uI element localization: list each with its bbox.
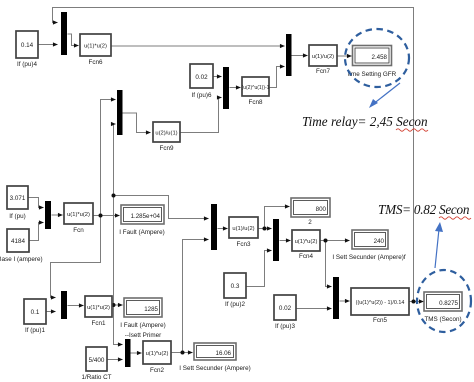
- mux M9: [125, 339, 131, 367]
- svg-text:16.06: 16.06: [216, 350, 232, 357]
- svg-text:I Sett Secunder (Ampere)f: I Sett Secunder (Ampere)f: [332, 254, 405, 261]
- function block Fcn9 u(2)/u(1): [153, 122, 180, 152]
- display I Fault (Ampere) --Isett Primer value 1285: [120, 298, 166, 339]
- function block Fcn6 u(1)*u(2): [80, 34, 111, 66]
- red squiggly underline under Secon: [396, 129, 428, 131]
- svg-text:Fcn: Fcn: [73, 227, 84, 234]
- mux M3: [117, 90, 123, 135]
- constant block 1/Ratio CT value 5/400: [81, 347, 111, 381]
- wire Fcn1 to display 1285: [113, 304, 123, 306]
- wire 1/Ratio CT to Mux9 bottom: [108, 359, 123, 361]
- svg-text:If (pu)4: If (pu)4: [17, 61, 37, 68]
- wire Fcn5 to display TMS: [410, 301, 424, 303]
- constant block If (pu)2 value 0.3: [224, 273, 246, 308]
- svg-text:TMS= 0.82 Secon: TMS= 0.82 Secon: [378, 202, 470, 217]
- function block Fcn3 u(1)/u(2): [229, 217, 258, 248]
- svg-text:Fcn5: Fcn5: [373, 317, 387, 324]
- display I Fault (Ampere) value 1.285e+04: [119, 205, 165, 236]
- svg-text:Fcn2: Fcn2: [150, 367, 164, 374]
- wire If(pu)1 to Mux2 bottom: [47, 311, 56, 313]
- junction node on Fcn3 output: [263, 227, 267, 231]
- wire Mux9 to Fcn2: [131, 352, 142, 354]
- svg-text:(u(2)^u(1))-1: (u(2)^u(1))-1: [242, 85, 270, 91]
- display I Sett Secunder (Ampere)f value 240: [332, 230, 405, 261]
- annotation blue arrow from TMS ellipse up to TMS text: [435, 222, 443, 268]
- constant block If (pu) value 3.071: [7, 186, 28, 220]
- svg-text:2: 2: [308, 219, 312, 226]
- wire If(pu)6 to Mux10 top: [214, 76, 222, 78]
- svg-text:Base I (ampere): Base I (ampere): [0, 256, 43, 263]
- mux M5: [211, 204, 217, 250]
- wire branch 16.06 net up to Mux5 bottom: [183, 240, 209, 353]
- junction node on Fcn2 output: [181, 351, 185, 355]
- wire feedback from Fcn5 output up and across top to Mux1: [53, 8, 414, 302]
- constant block If (pu)3 value 0.02: [274, 295, 296, 330]
- svg-text:Fcn8: Fcn8: [249, 99, 263, 106]
- svg-text:u(1)*u(2): u(1)*u(2): [295, 239, 318, 245]
- annotation dashed ellipse around TMS display: [417, 270, 471, 332]
- svg-text:If (pu)6: If (pu)6: [192, 92, 212, 99]
- svg-text:0.14: 0.14: [21, 42, 34, 49]
- svg-text:240: 240: [374, 238, 385, 245]
- svg-text:I Sett Secunder (Ampere): I Sett Secunder (Ampere): [179, 365, 250, 372]
- svg-text:1285: 1285: [144, 306, 158, 313]
- svg-text:1.285e+04: 1.285e+04: [131, 213, 161, 220]
- mux M7: [286, 34, 292, 76]
- mux M6: [273, 219, 279, 261]
- wire Fcn to display I Fault (Ampere): [94, 215, 120, 217]
- svg-text:Fcn1: Fcn1: [92, 320, 106, 327]
- wire Base I to Mux4 bottom: [30, 223, 44, 241]
- svg-text:u(1)*u(2): u(1)*u(2): [67, 212, 90, 218]
- function block Fcn7 u(1)/u(2): [309, 45, 337, 75]
- wire If(pu)3 to Mux8 bottom: [297, 308, 332, 310]
- wire branch Fcn3 up to display 800: [265, 207, 290, 229]
- svg-text:u(2)/u(1): u(2)/u(1): [155, 131, 177, 137]
- svg-text:u(1)/u(2): u(1)/u(2): [312, 54, 334, 60]
- display 2 value 800: [291, 198, 330, 226]
- wire Mux8 to Fcn5: [340, 300, 350, 302]
- mux M2: [61, 291, 67, 319]
- wire Fcn7 to display time Setting GFR: [338, 55, 352, 57]
- svg-text:0.02: 0.02: [279, 305, 292, 312]
- junction node on Fcn output: [99, 214, 103, 218]
- wire Fcn9 to Mux10 bottom: [181, 98, 222, 133]
- mux M8: [333, 277, 339, 319]
- mux M10: [223, 67, 229, 109]
- wire Mux1 to Fcn6: [68, 34, 79, 46]
- svg-text:5/400: 5/400: [89, 357, 105, 364]
- function block Fcn5 ((u(1)^u(2))-1)/0.14: [351, 288, 409, 324]
- wire Mux7 to Fcn7: [292, 55, 308, 57]
- wire Fcn4 to display 240: [321, 240, 350, 242]
- svg-text:Fcn9: Fcn9: [160, 145, 174, 152]
- wire branch 240 net down to Mux8 top: [326, 241, 332, 287]
- svg-text:I Fault (Ampere): I Fault (Ampere): [119, 229, 165, 236]
- annotation blue arrow from GFR ellipse to Time relay text: [369, 83, 400, 108]
- constant block If (pu)4 value 0.14: [16, 31, 38, 68]
- svg-text:0.02: 0.02: [195, 74, 208, 81]
- wire Fcn8 to Mux7 bottom: [270, 67, 285, 88]
- function block Fcn8 (u(2)^u(1))-1: [242, 77, 270, 106]
- wire Mux6 to Fcn4: [280, 240, 291, 242]
- wire Mux3 to Fcn9: [123, 113, 151, 133]
- svg-text:--Isett Primer: --Isett Primer: [125, 332, 161, 339]
- wire Mux2 to Fcn1: [68, 305, 84, 307]
- svg-text:2.458: 2.458: [372, 54, 388, 61]
- function block Fcn2 u(1)*u(2): [143, 341, 171, 374]
- function block Fcn4 u(1)*u(2): [292, 230, 320, 260]
- svg-text:u(1)*u(2): u(1)*u(2): [84, 44, 107, 50]
- wire branch I Fault net down-left to Mux2 top and up to Mux3 top: [51, 216, 101, 298]
- junction node on Fcn4 output: [324, 239, 328, 243]
- mux M1: [61, 12, 67, 55]
- svg-text:((u(1)^u(2)) - 1)/0.14: ((u(1)^u(2)) - 1)/0.14: [356, 300, 405, 306]
- svg-text:800: 800: [316, 206, 327, 213]
- svg-text:0.8275: 0.8275: [439, 300, 458, 307]
- svg-text:TMS (Secon): TMS (Secon): [424, 316, 461, 323]
- svg-text:Time relay= 2,45 Secon: Time relay= 2,45 Secon: [302, 114, 428, 129]
- display TMS (Secon) value 0.8275: [424, 292, 462, 323]
- svg-text:3.071: 3.071: [10, 195, 26, 202]
- constant block If (pu)1 value 0.1: [24, 299, 46, 334]
- svg-text:If (pu)1: If (pu)1: [25, 327, 45, 334]
- svg-text:Fcn6: Fcn6: [89, 59, 103, 66]
- mux M4: [45, 201, 51, 229]
- svg-text:u(1)*u(2): u(1)*u(2): [146, 351, 169, 357]
- constant block If (pu)6 value 0.02: [190, 64, 213, 99]
- red squiggly underline under Secon 2: [439, 217, 471, 219]
- wire Fcn1 net vertical branch: Mux3 bottom, y195 line, Mux9 top: [114, 124, 116, 305]
- wire Mux10 to Fcn8: [230, 87, 241, 89]
- svg-text:Fcn7: Fcn7: [316, 68, 330, 75]
- wire If(pu)2 to Mux6 bottom: [247, 251, 272, 287]
- svg-text:Fcn3: Fcn3: [237, 241, 251, 248]
- wire If(pu)4 to Mux1: [39, 44, 58, 46]
- svg-text:0.3: 0.3: [231, 283, 240, 290]
- annotation dashed ellipse around time Setting GFR: [345, 29, 409, 87]
- svg-text:Fcn4: Fcn4: [299, 253, 313, 260]
- svg-text:u(1)*u(2): u(1)*u(2): [87, 305, 110, 311]
- svg-text:1/Ratio CT: 1/Ratio CT: [81, 374, 111, 381]
- function block Fcn u(1)*u(2): [64, 203, 93, 234]
- wire Mux5 to Fcn3: [218, 228, 228, 230]
- svg-text:0.1: 0.1: [31, 309, 40, 316]
- display time Setting GFR value 2.458: [348, 46, 397, 79]
- svg-text:4184: 4184: [11, 238, 26, 245]
- junction node on Fcn5 output: [412, 300, 416, 304]
- svg-text:If (pu)2: If (pu)2: [225, 301, 245, 308]
- wire Fcn6 to Mux7 top: [112, 45, 285, 47]
- wire Fcn3 to Mux6 top: [259, 228, 272, 230]
- svg-text:u(1)/u(2): u(1)/u(2): [232, 226, 254, 232]
- wire Mux4 to Fcn: [52, 214, 63, 216]
- svg-text:I Fault (Ampere): I Fault (Ampere): [120, 322, 166, 329]
- svg-text:If (pu)3: If (pu)3: [275, 323, 295, 330]
- function block Fcn1 u(1)*u(2): [85, 296, 112, 327]
- junction node at y195 line: [112, 194, 116, 198]
- constant block Base I (ampere) value 4184: [0, 229, 43, 263]
- wire Fcn2 to display 16.06: [172, 352, 193, 354]
- svg-text:If (pu): If (pu): [9, 213, 25, 220]
- svg-text:time Setting GFR: time Setting GFR: [348, 71, 397, 78]
- display I Sett Secunder (Ampere) value 16.06: [179, 343, 250, 372]
- wire If(pu) to Mux4 top: [29, 198, 44, 208]
- junction node on Fcn1 output: [112, 303, 116, 307]
